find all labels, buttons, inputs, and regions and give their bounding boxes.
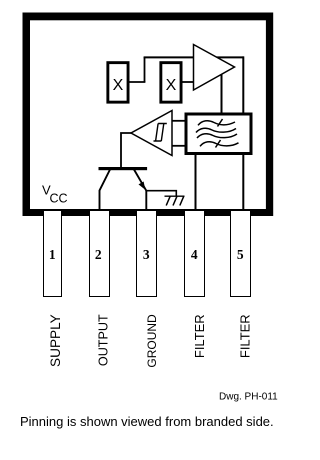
svg-text:5: 5 bbox=[237, 247, 244, 262]
svg-text:FILTER: FILTER bbox=[192, 314, 207, 358]
wire amp area down to filter top (x=221.5) bbox=[221, 65, 223, 113]
transistor Q1 emitter (to pin 2) bbox=[100, 170, 111, 211]
svg-text:OUTPUT: OUTPUT bbox=[96, 314, 110, 366]
svg-text:2: 2 bbox=[95, 247, 102, 262]
ground hatch 2 bbox=[173, 196, 177, 205]
hall plate X1 box bbox=[108, 63, 128, 103]
svg-text:Pinning is shown viewed from b: Pinning is shown viewed from branded sid… bbox=[20, 414, 274, 429]
filter wave 2 (middle pair upper) bbox=[196, 128, 236, 132]
wire filter bottom left to pin 4 bbox=[195, 153, 197, 210]
svg-text:Dwg. PH-011: Dwg. PH-011 bbox=[219, 392, 278, 403]
svg-text:X: X bbox=[113, 77, 124, 94]
wire stub X1 output bbox=[129, 81, 145, 83]
wire from X1 riser to amp input (upper), y=57 bbox=[144, 56, 244, 58]
ground hatch 3 bbox=[180, 196, 184, 205]
svg-text:CC: CC bbox=[50, 191, 68, 205]
transistor Q1 collector (to pin 3) with arrow bbox=[134, 170, 146, 211]
pin 4 lead bbox=[185, 211, 205, 297]
svg-text:SUPPLY: SUPPLY bbox=[48, 314, 63, 367]
package outline left edge bbox=[23, 13, 31, 217]
package outline top edge bbox=[23, 13, 274, 21]
schmitt trigger U1 stub to filter (lower) bbox=[171, 145, 185, 147]
svg-text:1: 1 bbox=[49, 247, 56, 262]
wire filter bottom right to pin 5 bbox=[242, 153, 244, 210]
op-amp A1 (amplifier triangle) bbox=[194, 45, 235, 91]
transistor Q1 base bar bbox=[99, 167, 148, 170]
ground hatch 1 bbox=[166, 196, 170, 205]
pin 2 lead bbox=[90, 211, 110, 297]
hall plate X2 box bbox=[161, 63, 181, 103]
svg-text:X: X bbox=[166, 77, 177, 94]
wire right vertical from y=57 down to filter top (x=243.5) bbox=[242, 56, 244, 113]
schmitt trigger U1 output wire to transistor base bbox=[121, 133, 132, 168]
filter wave 1 (top, with strike) bbox=[198, 121, 235, 126]
svg-text:3: 3 bbox=[143, 247, 150, 262]
pin 5 lead bbox=[231, 211, 251, 297]
schmitt trigger U1 stub to filter (upper) bbox=[171, 120, 185, 122]
pin 1 lead bbox=[44, 211, 62, 297]
package outline bottom edge bbox=[23, 209, 274, 216]
schmitt trigger hysteresis symbol bbox=[154, 124, 167, 142]
filter wave 4 (bottom, with strike) bbox=[200, 142, 239, 147]
wire stub X2 output to amp input (lower) bbox=[182, 81, 194, 83]
svg-text:GROUND: GROUND bbox=[145, 314, 159, 368]
wire collector node to ground symbol bbox=[146, 191, 176, 196]
filter wave 3 (middle pair lower) bbox=[197, 134, 237, 138]
ground (chassis) symbol top bar bbox=[165, 195, 185, 197]
filter F1 box bbox=[186, 114, 251, 154]
filter wave 1 strike tick bbox=[218, 119, 223, 127]
svg-text:FILTER: FILTER bbox=[237, 314, 252, 358]
schmitt trigger U1 (comparator triangle pointing left) bbox=[131, 111, 172, 156]
transistor Q1 arrowhead bbox=[139, 182, 146, 190]
pin 3 lead bbox=[137, 211, 157, 297]
wire riser from X1 stub up, x=144.5 bbox=[144, 57, 146, 82]
filter wave 4 strike tick bbox=[216, 140, 221, 148]
package outline right edge bbox=[266, 13, 273, 217]
svg-text:4: 4 bbox=[191, 247, 198, 262]
